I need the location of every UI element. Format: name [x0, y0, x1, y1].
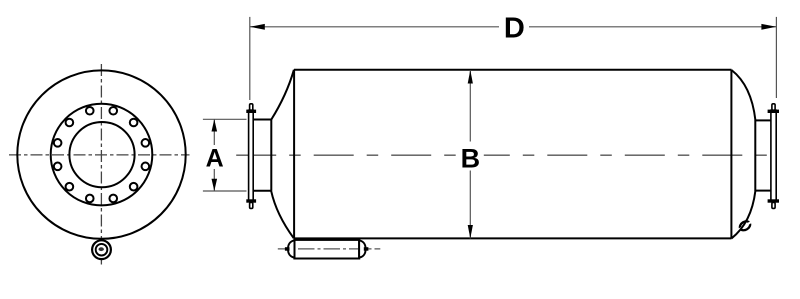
svg-text:D: D	[504, 13, 525, 45]
svg-text:B: B	[461, 143, 481, 173]
svg-text:A: A	[206, 145, 224, 173]
